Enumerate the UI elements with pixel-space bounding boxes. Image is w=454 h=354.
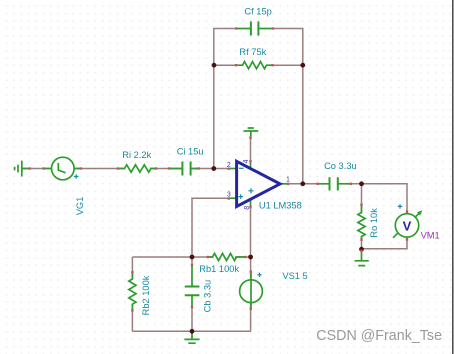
terminal VG1 right [80, 167, 82, 169]
terminal Ro bottom [360, 239, 362, 241]
VS1 plus [257, 273, 261, 277]
terminal U1 pin4 [249, 160, 251, 162]
capacitor Ci 15u [169, 168, 199, 170]
terminal VS1 bottom [250, 308, 252, 310]
wire VCC to pin4 [250, 137, 252, 161]
terminal Cb top [191, 264, 193, 266]
terminal Cb bottom [191, 306, 193, 308]
terminal VM1 bottom [406, 238, 408, 240]
wire Ri to Ci [150, 168, 182, 170]
op-amp pin4 lead [250, 162, 252, 168]
wire Cb vertical [191, 257, 193, 331]
terminal Cf right [272, 27, 274, 29]
resistor Rb2 100k [129, 273, 136, 311]
svg-text:VM1: VM1 [421, 231, 440, 241]
svg-text:1: 1 [286, 176, 290, 183]
node bottom ground [190, 329, 195, 334]
wire VS1 top [250, 257, 252, 280]
svg-text:Cb 3.3u: Cb 3.3u [203, 280, 213, 313]
terminal Cf left [235, 27, 237, 29]
terminal VG1 left [42, 167, 44, 169]
wire bias row right [235, 256, 251, 258]
terminal VCC stem [249, 137, 251, 139]
wire input row ground to VG1 [22, 168, 51, 170]
vcc supply symbol [244, 128, 259, 137]
terminal ground VG1 side [29, 167, 31, 169]
node Ro bottom [359, 247, 364, 252]
terminal Co left [316, 183, 318, 185]
wire Ci to op-amp pin2 [191, 168, 229, 170]
terminal Ci right [198, 167, 200, 169]
node Rf left [212, 63, 217, 68]
U1 non-inverting input plus [238, 194, 243, 199]
svg-text:3: 3 [227, 192, 231, 199]
terminal Rf left [235, 64, 237, 66]
resistor Rf 75k [236, 62, 273, 69]
op-amp output lead [280, 183, 288, 185]
resistor Ro 10k [358, 205, 365, 240]
op-amp pin2 lead [229, 168, 237, 170]
wire feedback top from Cf and right rail [273, 29, 303, 184]
wire Ro top [361, 184, 363, 212]
terminal Ri right [155, 167, 157, 169]
wire feedback rail left and top to Cf [214, 29, 238, 169]
VM1 plus [398, 204, 402, 208]
svg-text:2: 2 [227, 162, 231, 169]
terminal U1 pin8 [249, 206, 251, 208]
wire Rf row left [214, 64, 243, 66]
svg-text:Ci 15u: Ci 15u [177, 146, 204, 156]
wire pin8 down [250, 205, 252, 257]
voltmeter VM1 [393, 210, 422, 240]
terminal Rb2 top [131, 271, 133, 273]
wire VS1 bottom [250, 302, 252, 331]
terminal Rb1 right [244, 256, 246, 258]
terminal Ri left [117, 167, 119, 169]
capacitor Cf 15p [237, 28, 273, 30]
wire Ro bottom [361, 237, 363, 249]
terminal Ci left [168, 167, 170, 169]
svg-text:Cf 15p: Cf 15p [244, 6, 271, 16]
wire bias row left [132, 256, 213, 258]
op-amp polarity marks [74, 168, 402, 277]
terminal Co right [350, 183, 352, 185]
resistor Rb1 100k [208, 253, 246, 260]
source VG1 [44, 157, 81, 180]
terminal VM1 top [406, 210, 408, 212]
op-amp pin3 lead [229, 197, 237, 199]
svg-text:VG1: VG1 [75, 197, 85, 216]
op-amp pin8 lead [250, 200, 252, 207]
terminal marks [29, 27, 409, 311]
svg-text:Ro 10k: Ro 10k [369, 208, 379, 238]
source VS1 [240, 273, 263, 310]
svg-text:4: 4 [243, 159, 250, 163]
svg-text:Ri 2.2k: Ri 2.2k [122, 150, 151, 160]
terminal U1 pin2 [227, 168, 229, 170]
frame right edge [452, 0, 454, 354]
op-amp U1 triangle [237, 161, 280, 206]
svg-text:Co 3.3u: Co 3.3u [324, 161, 357, 171]
terminal Rb1 left [207, 256, 209, 258]
node Ci/pin2/feedback [211, 166, 216, 171]
U1 inverting input minus [239, 167, 244, 169]
terminal Ro top [360, 204, 362, 206]
terminal U1 pin1 [287, 183, 289, 185]
capacitor Co 3.3u [317, 183, 351, 185]
terminal ground Ro side [360, 250, 362, 252]
wire bottom row [132, 330, 250, 332]
svg-text:Rb2 100k: Rb2 100k [141, 275, 151, 315]
wire Rb2 vertical [131, 257, 133, 331]
svg-text:CSDN @Frank_Tse: CSDN @Frank_Tse [316, 328, 442, 344]
svg-text:Rb1 100k: Rb1 100k [199, 264, 239, 274]
svg-text:8: 8 [244, 206, 251, 210]
resistor Ri 2.2k [118, 165, 157, 172]
node Co/Ro [359, 181, 364, 186]
VG1 plus [74, 174, 78, 178]
svg-text:V: V [403, 219, 412, 234]
op-amp pin numbers [227, 159, 290, 209]
terminal Rb2 bottom [131, 309, 133, 311]
wire pin3 to bias junction [192, 198, 229, 257]
svg-text:VS1 5: VS1 5 [282, 271, 307, 281]
terminal U1 pin3 [227, 197, 229, 199]
node bias right [248, 255, 253, 260]
terminal VS1 top [250, 270, 252, 272]
wire Co to VM1 corner [338, 184, 407, 211]
node bias left [190, 255, 195, 260]
wire Rf row right [266, 64, 303, 66]
wire VG1 to Ri [74, 168, 124, 170]
terminal Rf right [271, 64, 273, 66]
ground below Cb [184, 331, 199, 343]
wire output row to Co [288, 183, 329, 185]
svg-text:U1 LM358: U1 LM358 [259, 200, 302, 210]
node Rf right [300, 63, 305, 68]
U1 supply plus [248, 188, 253, 193]
node output/feedback [300, 181, 305, 186]
ground below Ro [355, 252, 369, 266]
ground left of VG1 [15, 161, 29, 177]
svg-text:Rf 75k: Rf 75k [239, 47, 266, 57]
wire VM1 bottom return [362, 239, 408, 249]
capacitor Cb 3.3u [191, 266, 193, 307]
